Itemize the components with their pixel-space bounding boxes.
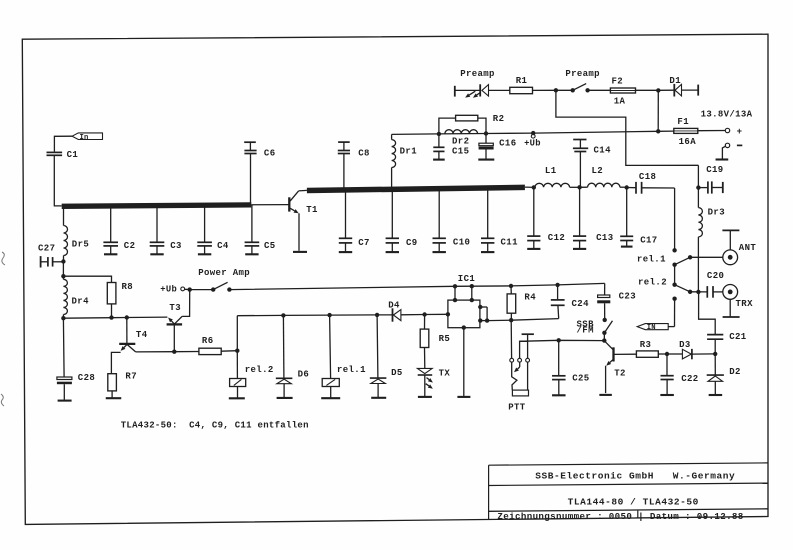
capacitor C28 (electrolytic)	[62, 318, 65, 376]
ground minus terminal	[716, 158, 729, 160]
wire to Power Amp switch	[190, 289, 214, 291]
node C17/C18 junction	[625, 185, 629, 189]
svg-text:T1: T1	[306, 205, 318, 215]
ground C5	[245, 253, 258, 255]
ground C22	[660, 394, 674, 396]
node Dr4 bottom junction	[61, 316, 65, 320]
diode D2	[714, 354, 716, 375]
wire T4 base drop	[126, 318, 128, 344]
capacitor C13	[579, 187, 581, 235]
capacitor C24	[555, 283, 559, 287]
transistor T3	[167, 323, 183, 325]
svg-text:D5: D5	[391, 368, 403, 378]
wire switch to T2 node	[603, 333, 605, 341]
node rail Dr2 left	[437, 132, 441, 136]
svg-text:rel.1: rel.1	[337, 365, 366, 375]
diode D3	[667, 353, 682, 355]
svg-text:Preamp: Preamp	[460, 69, 495, 79]
svg-text:C24: C24	[572, 299, 590, 309]
svg-text:C19: C19	[706, 165, 723, 175]
svg-text:C27: C27	[38, 243, 55, 253]
capacitor C1	[47, 151, 63, 153]
diode D1	[658, 89, 674, 91]
svg-text:TLA432-50: C4, C9, C11 entfal: TLA432-50: C4, C9, C11 entfallen	[121, 420, 309, 430]
wire IC1 lower bus to C24	[487, 319, 559, 321]
wire rel.1 to rel.2 pivot	[674, 265, 676, 285]
jack PTT	[510, 320, 512, 358]
switch Preamp	[571, 88, 575, 92]
svg-text:Dr3: Dr3	[708, 208, 725, 218]
ground T1	[293, 251, 307, 253]
resistor R7	[108, 374, 117, 391]
title block box	[488, 465, 490, 520]
capacitor C15	[438, 134, 440, 147]
capacitor C5	[251, 205, 253, 242]
ground C16	[478, 159, 494, 161]
node R3/C22/D3 junction	[665, 352, 669, 356]
svg-text:C21: C21	[729, 332, 747, 342]
connector flag In	[72, 133, 102, 140]
capacitor C4	[204, 206, 206, 242]
svg-text:SSB-Electronic GmbH W.-Germa: SSB-Electronic GmbH W.-Germany	[535, 470, 735, 481]
svg-text:D2: D2	[729, 367, 741, 377]
wire base line to T3 emitter	[63, 317, 167, 318]
capacitor C3	[156, 206, 158, 242]
wire R6 to relay node	[221, 350, 237, 353]
svg-text:Dr5: Dr5	[72, 240, 89, 250]
ground C12	[527, 248, 540, 250]
wire minus terminal to ground	[722, 146, 725, 159]
svg-text:C14: C14	[594, 146, 612, 156]
wire node to switch	[556, 89, 573, 91]
capacitor C12	[533, 187, 535, 235]
terminal +Ub circle (Power Amp feed)	[181, 287, 185, 291]
capacitor C22	[666, 354, 668, 375]
svg-text:R4: R4	[524, 293, 536, 303]
svg-text:F2: F2	[612, 77, 624, 87]
wire stripline to L1	[525, 186, 535, 188]
connector TRX	[723, 285, 738, 300]
resistor R3	[636, 351, 658, 357]
svg-text:16A: 16A	[679, 137, 697, 147]
svg-text:1A: 1A	[614, 97, 626, 107]
node rail Dr2 right	[484, 131, 488, 135]
capacitor C11	[487, 189, 489, 237]
svg-text:TLA144-80 / TLA432-50: TLA144-80 / TLA432-50	[568, 497, 699, 508]
svg-text:C15: C15	[452, 147, 469, 157]
ground C7	[339, 251, 352, 253]
wire rel.2 to C20	[690, 291, 707, 293]
fuse F1 16A	[674, 128, 698, 133]
relay coil rel.1	[330, 315, 331, 378]
svg-text:C7: C7	[358, 238, 370, 248]
capacitor C9	[391, 191, 393, 238]
svg-text:+: +	[737, 127, 743, 137]
node C25 top	[557, 338, 561, 342]
node rail/D1 junction	[656, 129, 660, 133]
svg-text:C4: C4	[217, 241, 229, 251]
resistor R4	[510, 286, 512, 294]
capacitor C16 (electrolytic)	[485, 134, 487, 144]
svg-text:rel.2: rel.2	[245, 365, 274, 375]
wire F2 to D1 node	[636, 89, 659, 91]
svg-text:Dr2: Dr2	[452, 136, 469, 146]
svg-text:TX: TX	[439, 368, 451, 378]
node C13/C14/L2 junction	[577, 185, 581, 189]
node T3 base / R6 line	[172, 350, 176, 354]
resistor R2	[439, 118, 456, 134]
ground C2	[104, 253, 117, 255]
wire LED to R1	[489, 89, 510, 91]
node preamp switch feed	[554, 88, 558, 92]
node Dr5/C27 junction	[61, 259, 65, 263]
node C19 junction	[696, 185, 700, 189]
IC1 pin top right	[471, 286, 473, 300]
svg-text:+Ub: +Ub	[524, 138, 541, 148]
svg-text:D6: D6	[298, 370, 310, 380]
stripline 1 (thick microstrip bar)	[62, 205, 252, 206]
svg-text:R5: R5	[439, 334, 451, 344]
connector ANT	[723, 250, 738, 265]
svg-text:+Ub: +Ub	[160, 285, 177, 295]
svg-text:Preamp: Preamp	[565, 69, 600, 79]
ground D5	[371, 397, 386, 399]
wire to LED	[455, 89, 480, 91]
node Dr3 / TRX line junction	[696, 290, 700, 294]
svg-text:C18: C18	[639, 172, 656, 182]
svg-text:IN: IN	[647, 324, 656, 332]
svg-text:C28: C28	[78, 373, 95, 383]
svg-text:F1: F1	[677, 117, 689, 127]
inductor L1	[535, 183, 570, 187]
svg-text:C17: C17	[640, 235, 657, 245]
wire T4 collector to R6	[136, 351, 199, 353]
wire top bus to C23	[229, 283, 604, 289]
LED TX	[424, 348, 426, 369]
ground T2	[599, 394, 612, 396]
svg-text:ANT: ANT	[739, 243, 757, 253]
diode D6	[282, 315, 285, 378]
node F2/D1 junction	[656, 88, 660, 92]
svg-text:Zeichnungsnummer : 0050 | Datu: Zeichnungsnummer : 0050 | Datum : 09.12.…	[497, 511, 743, 522]
LED preamp indicator	[479, 84, 481, 96]
wire F1 to plus terminal	[698, 130, 726, 132]
svg-text:R3: R3	[640, 340, 652, 350]
terminal + 13.8V	[725, 128, 729, 132]
wire rel.2 contact to IN flag	[674, 299, 676, 327]
op-amp IC1 box	[448, 300, 480, 328]
svg-text:C1: C1	[67, 150, 79, 160]
switch SSB/FM	[603, 318, 607, 322]
wire junction down	[62, 262, 64, 277]
capacitor C18	[627, 187, 636, 189]
title block row3 divider	[637, 511, 639, 519]
ground C10	[433, 251, 446, 253]
ground TX	[418, 396, 432, 398]
terminal +Ub tap	[531, 131, 535, 135]
margin mark left 1	[2, 252, 5, 265]
connector flag IN	[668, 326, 674, 328]
svg-text:C8: C8	[358, 149, 370, 159]
wire In flag to C1	[54, 136, 72, 151]
svg-text:C5: C5	[264, 241, 276, 251]
ground C25	[552, 394, 566, 396]
svg-text:C13: C13	[596, 233, 613, 243]
svg-text:D1: D1	[669, 76, 681, 86]
capacitor C7	[345, 192, 347, 238]
capacitor C8	[338, 141, 350, 143]
svg-text:C23: C23	[619, 292, 636, 302]
resistor R1	[510, 87, 533, 93]
svg-text:D3: D3	[679, 340, 691, 350]
wire rel.1 to ANT	[690, 256, 723, 258]
svg-text:C9: C9	[406, 238, 418, 248]
wire C1 to stripline	[54, 156, 61, 206]
svg-text:/FM: /FM	[577, 326, 594, 336]
wire relay top line to IC1	[237, 314, 392, 317]
svg-text:T3: T3	[169, 303, 181, 313]
node R5 top	[422, 312, 426, 316]
svg-text:C25: C25	[572, 374, 589, 384]
capacitor C17	[626, 188, 628, 236]
resistor R5	[424, 315, 426, 330]
switch rel.2	[672, 283, 676, 287]
svg-text:TRX: TRX	[736, 299, 754, 309]
ground R7	[106, 397, 122, 399]
ground rel.2	[229, 397, 245, 399]
svg-text:C2: C2	[124, 241, 136, 251]
ground rel.1	[321, 397, 340, 399]
node R8 bottom	[109, 315, 113, 319]
svg-text:R2: R2	[493, 114, 505, 124]
svg-text:In: In	[80, 134, 89, 142]
wire 13.8V rail	[392, 131, 674, 134]
inductor L2	[580, 186, 588, 188]
wire R1 to node	[533, 89, 556, 91]
switch rel.1	[672, 263, 676, 267]
ground D6	[277, 397, 293, 399]
wire T3 base drop	[173, 325, 175, 352]
resistor R8	[107, 283, 116, 304]
ground C9	[386, 251, 399, 253]
inductor Dr4	[62, 276, 64, 279]
wire PTT line to T2	[520, 340, 605, 341]
svg-text:C11: C11	[501, 237, 519, 247]
svg-text:R8: R8	[122, 282, 134, 292]
capacitor C6	[244, 141, 256, 143]
node rel.1 top	[327, 313, 331, 317]
wire R3 to D3 node	[658, 353, 667, 355]
capacitor C2	[110, 206, 112, 241]
ground C13	[573, 248, 586, 250]
svg-text:PTT: PTT	[508, 402, 526, 412]
capacitor C23 (electrolytic)	[604, 283, 606, 294]
transistor T1	[288, 197, 290, 211]
capacitor C19	[698, 187, 707, 189]
svg-text:13.8V/13A: 13.8V/13A	[701, 110, 753, 120]
wire switch to F2	[588, 89, 611, 91]
capacitor C14	[573, 139, 586, 141]
capacitor C25	[558, 340, 560, 375]
ground IC1	[457, 396, 470, 398]
ground C15	[433, 159, 445, 161]
wire T4 emitter to R7	[111, 352, 120, 373]
svg-text:Dr4: Dr4	[72, 296, 90, 306]
node T2 collector junction	[602, 338, 606, 342]
svg-text:D4: D4	[388, 301, 400, 311]
node C12/L1 junction	[532, 185, 536, 189]
node D6 top	[281, 313, 285, 317]
inductor Dr2	[445, 130, 478, 134]
node D3/C21/D2 junction	[713, 352, 717, 356]
ground C17	[621, 246, 633, 248]
IC1 pin left	[446, 312, 450, 316]
svg-text:C16: C16	[499, 138, 516, 148]
svg-text:R7: R7	[125, 372, 137, 382]
node +Ub junction	[188, 287, 192, 291]
node relay supply junction	[235, 349, 239, 353]
wire C18 to rel.1 contact	[674, 188, 676, 250]
IC1 pins right	[480, 306, 487, 308]
node rel.2 fixed contact	[672, 297, 676, 301]
IC1 pin top left	[454, 286, 456, 300]
wire preamp switch staircase to C19	[556, 90, 699, 165]
terminal - 13.8V	[725, 143, 729, 147]
switch Power Amp	[211, 287, 215, 291]
svg-text:C10: C10	[453, 237, 470, 247]
svg-text:Power Amp: Power Amp	[198, 268, 250, 278]
wire junction to R8	[63, 276, 111, 282]
ground C3	[150, 253, 163, 255]
wire R7 to ground	[111, 391, 113, 398]
margin mark left 2	[1, 394, 4, 406]
wire D1 node to rail	[657, 90, 659, 131]
diode D4	[392, 308, 394, 321]
wire relay riser	[236, 316, 238, 351]
node Dr4 top junction	[61, 274, 65, 278]
wire +Ub to T3 collector	[182, 290, 190, 317]
svg-text:C22: C22	[681, 374, 698, 384]
svg-text:rel.1: rel.1	[637, 255, 666, 265]
svg-text:C6: C6	[264, 148, 276, 158]
diode D5	[376, 315, 379, 378]
wire stripline to T1 base	[251, 204, 288, 206]
capacitor C27	[40, 256, 42, 267]
ground C11	[481, 251, 494, 253]
capacitor C20	[706, 286, 708, 298]
node R4 bottom / PTT junction	[509, 318, 513, 322]
svg-text:L1: L1	[545, 166, 557, 176]
ground C28	[58, 400, 72, 402]
capacitor C10	[438, 190, 440, 238]
node rel.1 fixed contact	[672, 248, 676, 252]
IC1 pin bottom	[463, 328, 465, 397]
svg-text:C3: C3	[170, 241, 182, 251]
relay coil rel.2	[236, 351, 238, 379]
svg-text:IC1: IC1	[458, 274, 476, 284]
node T4 base junction	[125, 315, 129, 319]
transistor T4	[119, 343, 135, 345]
svg-text:Dr1: Dr1	[400, 146, 418, 156]
svg-text:R6: R6	[202, 336, 214, 346]
svg-text:C12: C12	[548, 233, 565, 243]
capacitor C21	[714, 340, 716, 354]
svg-text:T2: T2	[614, 369, 626, 379]
ground C4	[198, 253, 211, 255]
svg-text:L2: L2	[592, 166, 604, 176]
ground D2	[709, 394, 723, 396]
terminal preamp LED left	[454, 86, 456, 97]
svg-text:rel.2: rel.2	[638, 277, 667, 287]
stripline 2 (thick microstrip bar)	[307, 187, 525, 190]
node D5 top	[375, 313, 379, 317]
transistor T2	[605, 341, 613, 349]
inductor Dr1	[391, 134, 393, 139]
inductor Dr5	[63, 208, 65, 225]
inductor Dr3	[697, 165, 699, 207]
resistor R6	[199, 348, 221, 354]
fuse F2 1A	[610, 88, 635, 93]
svg-text:C20: C20	[707, 271, 724, 281]
wire +Ub to switch	[185, 288, 190, 290]
svg-text:R1: R1	[516, 76, 528, 86]
wire R8 to base line	[111, 304, 113, 318]
svg-text:T4: T4	[136, 330, 148, 340]
